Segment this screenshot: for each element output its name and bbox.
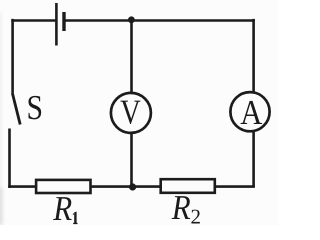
wire right vertical (252, 19, 255, 187)
svg-text:A: A (240, 93, 263, 132)
wire voltmeter branch vertical (130, 20, 133, 187)
svg-text:R: R (171, 188, 191, 225)
resistor R1 box (36, 180, 90, 193)
label R1 subscript 1 (73, 212, 78, 225)
wire top-left horizontal (11, 19, 56, 22)
switch S blade (13, 94, 21, 125)
wire bottom horizontal (8, 185, 255, 188)
wire top horizontal from battery to right corner (64, 19, 255, 22)
svg-text:2: 2 (191, 205, 202, 225)
battery short plate (negative) (62, 12, 65, 31)
resistor R2 box (161, 179, 215, 193)
wire left vertical upper (to switch) (11, 19, 14, 95)
battery long plate (positive) (55, 3, 58, 46)
svg-text:R: R (52, 189, 72, 225)
node dot bottom junction (129, 183, 136, 190)
ammeter A circle (230, 92, 269, 131)
voltmeter V circle (111, 93, 151, 133)
wire left vertical lower (switch to bottom corner) (8, 129, 11, 188)
node dot top junction (128, 16, 135, 23)
scan smudge left edge (0, 12, 2, 225)
svg-text:S: S (27, 88, 43, 127)
svg-text:V: V (120, 92, 141, 131)
scan smudge bottom-left corner (0, 188, 3, 225)
